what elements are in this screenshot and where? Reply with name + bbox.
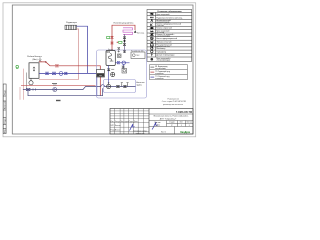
valve on return 2 — [52, 72, 56, 75]
legend table frame — [147, 10, 192, 62]
title block left grid — [110, 109, 149, 135]
svg-text:Инв.: Инв. — [4, 128, 6, 133]
return line sample (blue) — [150, 76, 154, 78]
svg-text:Сеть серии Р-НР-НРИ-ПИ: Сеть серии Р-НР-НРИ-ПИ — [162, 101, 187, 103]
small valve above device box — [122, 66, 125, 68]
svg-text:Г-ОМЗ-ОВ-ТМ: Г-ОМЗ-ОВ-ТМ — [176, 111, 192, 114]
svg-text:1: 1 — [181, 125, 182, 127]
svg-text:отопления: отопления — [155, 78, 163, 80]
note block above title — [162, 98, 187, 106]
secondary riser (dark) — [124, 34, 126, 53]
sensor wire drop — [26, 73, 28, 90]
DHW drop — [123, 64, 125, 68]
svg-text:Полотенцесушитель: Полотенцесушитель — [114, 22, 134, 24]
tiny label above DHW line — [110, 60, 114, 63]
valve on return 3 — [64, 72, 67, 74]
svg-text:Петров: Петров — [115, 129, 121, 131]
boiler — [106, 51, 115, 66]
box internal mark — [33, 67, 35, 71]
vent valve at box corner — [39, 57, 42, 61]
svg-text:Датчик температуры: Датчик температуры — [156, 55, 175, 57]
signature squiggle right — [152, 122, 158, 130]
svg-text:Стадия: Стадия — [169, 122, 175, 124]
svg-text:Радиатор отопительный секц.: Радиатор отопительный секц. — [156, 16, 183, 19]
svg-text:Лист 1: Лист 1 — [161, 131, 166, 133]
svg-text:размещение включая: размещение включая — [163, 104, 183, 106]
towel rail coil (magenta) — [123, 28, 133, 35]
svg-text:Взам.ин: Взам.ин — [4, 101, 6, 109]
pump group pump — [107, 84, 111, 88]
title block — [110, 109, 193, 135]
valve on secondary riser — [123, 37, 126, 39]
svg-text:(Вкл): (Вкл) — [33, 59, 38, 61]
radiator return pipe (blue) — [77, 26, 88, 73]
valve on return 1 — [45, 72, 48, 75]
svg-text:Подп.: Подп. — [4, 118, 6, 124]
svg-text:АУГТ "Гипрозем-2": АУГТ "Гипрозем-2" — [160, 117, 177, 120]
expansion vessel under boiler — [111, 72, 115, 76]
tiny label near boiler drop valve — [111, 68, 114, 71]
svg-text:Условные обозначения: Условные обозначения — [157, 10, 182, 13]
valve under boiler — [107, 69, 110, 71]
valve on branch — [26, 88, 30, 90]
svg-text:Кол.уч: Кол.уч — [115, 121, 120, 123]
svg-text:Работа Насоса: Работа Насоса — [27, 56, 42, 58]
boiler coil — [109, 54, 112, 62]
blue drop right — [96, 73, 98, 95]
svg-text:Насос циркуляционный: Насос циркуляционный — [156, 37, 177, 40]
valve on red riser 1 — [111, 36, 114, 38]
svg-text:Разрешение: Разрешение — [167, 98, 179, 100]
svg-text:Клапан обратный: Клапан обратный — [156, 27, 171, 30]
svg-text:Листов: Листов — [187, 122, 192, 124]
legend row symbols — [150, 13, 154, 60]
valve on red riser 2 — [111, 42, 114, 44]
sheet inner frame — [12, 5, 193, 134]
svg-text:1: 1 — [189, 125, 190, 127]
return line (blue) — [39, 72, 98, 74]
svg-text:Иванов: Иванов — [115, 125, 121, 127]
svg-text:группа: группа — [136, 85, 141, 87]
green thermostat — [16, 65, 19, 68]
towel rail supply loop (red) — [112, 25, 135, 50]
thermometer stems in pump group — [121, 83, 129, 87]
svg-text:электроприводом: электроприводом — [156, 60, 171, 62]
check valve (filled) on secondary riser — [123, 40, 126, 43]
pump station box — [29, 63, 39, 79]
svg-text:Подп.: Подп. — [4, 89, 6, 95]
boiler control unit — [97, 70, 105, 78]
svg-text:хоз-питьевой: хоз-питьевой — [155, 67, 165, 70]
tiny note above branch pump — [52, 83, 57, 84]
air vent triangle — [134, 30, 137, 33]
svg-text:Кран шаровый: Кран шаровый — [156, 13, 169, 16]
floor heating riser pink 2 — [23, 69, 25, 100]
left margin vertical captions — [4, 89, 6, 133]
valve on supply line — [55, 65, 58, 67]
pump on return — [59, 72, 63, 76]
svg-text:Фильтр сетчатый: Фильтр сетчатый — [156, 40, 171, 43]
supply line sample (red) — [150, 71, 154, 73]
boiler bottom drop — [108, 66, 110, 85]
line-types mini table — [150, 65, 188, 80]
svg-text:Термометр: Термометр — [156, 51, 166, 53]
svg-text:Дата: Дата — [134, 121, 138, 123]
valve lower on secondary riser — [123, 44, 126, 46]
green sensor tag near riser — [107, 37, 110, 39]
svg-text:Московская область, Раменский: Московская область, Раменский район, — [154, 115, 189, 118]
pump under box — [29, 81, 33, 85]
sheet outer border — [3, 3, 196, 137]
valve on DHW — [117, 62, 120, 64]
svg-text:Лист: Лист — [180, 122, 184, 124]
svg-text:Радиаторы: Радиаторы — [66, 22, 77, 24]
fittings at boiler top right — [118, 48, 121, 50]
pump group sub-zone — [104, 80, 136, 93]
title block left texts — [110, 120, 137, 132]
title block right part — [149, 114, 193, 134]
svg-text:отопления: отопления — [155, 73, 163, 75]
svg-text:Подп: Подп — [129, 121, 133, 123]
valve in pump group 2 — [123, 85, 126, 87]
legend row texts — [156, 13, 183, 62]
pump on branch — [53, 88, 57, 92]
boiler zone boundary — [97, 50, 147, 98]
svg-text:Манометр: Манометр — [156, 48, 165, 50]
svg-text:ЭкоДом: ЭкоДом — [180, 130, 190, 134]
DHW line from boiler — [115, 62, 129, 64]
supply line (red) to boiler zone — [39, 62, 100, 96]
water line sample — [150, 66, 154, 68]
green tag lower with magenta dot — [119, 41, 122, 43]
bottom loop line — [28, 88, 103, 95]
svg-text:котельной: котельной — [136, 132, 145, 135]
left margin attachment table — [3, 84, 6, 134]
pump group line — [106, 86, 135, 88]
second supply branch (red) — [21, 85, 96, 87]
svg-text:схема: схема — [155, 125, 160, 127]
pump small top right of boiler — [118, 54, 122, 58]
fitting on supply — [45, 61, 47, 63]
pump on DHW — [122, 61, 125, 64]
signature squiggle left — [130, 124, 135, 131]
small label under bottom line — [56, 100, 61, 101]
valve in pump group 1 — [116, 85, 119, 87]
floor heating riser pink 1 — [19, 87, 21, 100]
radiator block — [65, 25, 77, 29]
small device box — [122, 69, 127, 74]
branch line with pump — [23, 87, 101, 90]
svg-text:Авт.возд.: Авт.возд. — [137, 31, 145, 34]
radiator supply pipe (pink) — [39, 29, 79, 79]
union fittings on branch — [33, 88, 35, 90]
